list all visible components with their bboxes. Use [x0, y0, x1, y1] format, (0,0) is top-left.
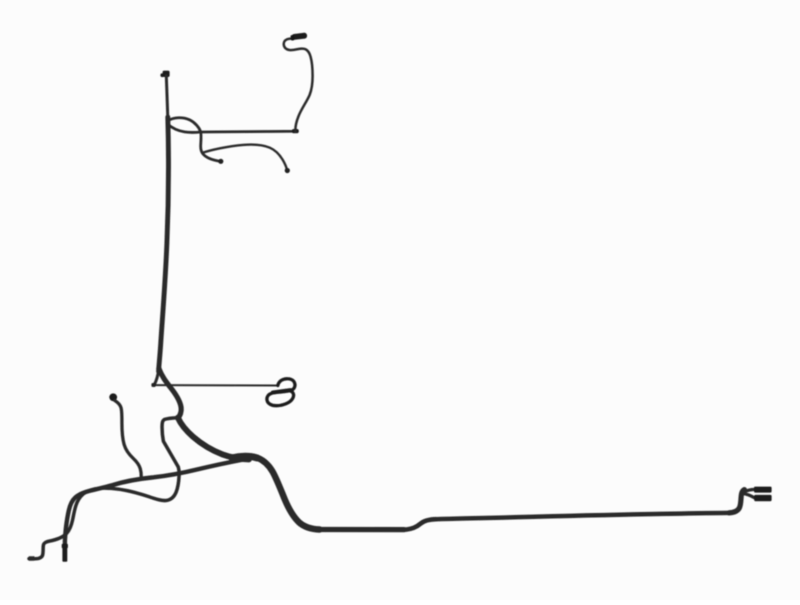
fan wire to upper spade [743, 489, 755, 492]
wire: long run low section [318, 527, 404, 532]
bullet connector C1 (cylinder) [290, 32, 307, 40]
spade terminal lower [754, 495, 771, 501]
wire: twist upper arc into branch descender [168, 118, 218, 161]
spade terminal upper [754, 487, 772, 493]
wire: horizontal run H1 [201, 130, 296, 133]
wire: bundle S1 from merge corner to bottom-left connector [65, 460, 243, 544]
wire: branch S3 U-turn from bundle, diagonal and swoop to hook end [29, 418, 179, 559]
ring terminal R1 (twisted double loop) [267, 379, 295, 406]
wire: merged bundle descending S to long run [236, 456, 320, 529]
bottom-left vertical connector [62, 544, 68, 549]
connector cap top of vertical bundle [160, 71, 169, 78]
wire: main bundle sweep from cusp to merge corner [178, 418, 249, 460]
crimp sleeve at H1 right end [292, 129, 299, 133]
junction fork left thin prong [154, 369, 159, 385]
wire: long run upper section to right elbow [436, 513, 729, 519]
wire: main bundle fork right prong down to cusp [159, 369, 181, 418]
wire: knob branch W3 [115, 401, 141, 477]
wire: ramp step up [404, 519, 436, 529]
tiny cap at H2 left end [151, 383, 155, 387]
bullet terminal B2 [285, 168, 290, 173]
wire: twist lower arc [168, 124, 201, 132]
knob connector on left branch [109, 393, 117, 401]
wire: main vertical bundle [159, 117, 169, 372]
merge corner thick joint [232, 456, 257, 458]
wire: branch to second bullet [203, 145, 287, 170]
wire: S-curve up to bullet connector [284, 39, 313, 132]
bullet terminal B1 [218, 159, 223, 164]
ring middle bar [273, 390, 291, 392]
hook squared end [29, 556, 35, 560]
right elbow up [729, 490, 744, 513]
wire: vertical bundle upper thin segment [166, 76, 168, 118]
wire: thin horizontal H2 [153, 384, 278, 386]
fan wire to lower spade [743, 493, 755, 497]
